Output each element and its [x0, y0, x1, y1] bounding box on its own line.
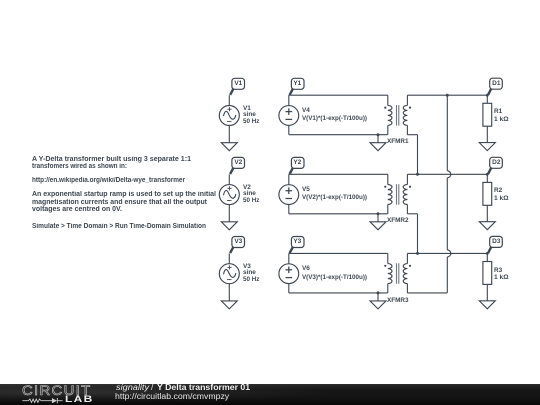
wire secondary top rail row 2 — [407, 173, 487, 175]
wire Y1 label to source V4 — [288, 95, 290, 106]
junction at D3 — [486, 252, 489, 255]
logo resistor symbol — [22, 399, 52, 402]
junction primary ground tap row 1 — [377, 133, 380, 143]
wire source V4 to bottom rail — [288, 125, 290, 134]
node V1 label flag — [230, 78, 244, 95]
node Y2 label flag — [290, 157, 304, 174]
wire source V3 to ground — [228, 284, 230, 301]
wire Y2 label to source V5 — [288, 174, 290, 185]
wire XFMR2 secondary bottom to next row — [407, 214, 417, 254]
node V2 label text — [232, 160, 245, 167]
node V1 label text — [232, 81, 245, 88]
ground primary row 3 — [370, 301, 386, 309]
resistor R1 value text — [494, 109, 502, 115]
resistor R2 — [483, 174, 492, 221]
node D2 label text — [490, 160, 503, 167]
node Y1 label flag — [290, 78, 304, 95]
wire source V1 to ground — [228, 126, 230, 143]
footer title: schematic name — [157, 384, 250, 392]
wire Y1 top rail — [289, 94, 388, 96]
wire XFMR1 secondary bottom to next row — [407, 135, 417, 175]
wire V2 label to source — [228, 174, 230, 184]
node D3 label text — [490, 239, 503, 246]
wire source V5 to bottom rail — [288, 204, 290, 213]
wire Y3 top rail — [289, 252, 388, 254]
junction at D1 — [486, 94, 489, 97]
transformer XFMR3 — [384, 253, 411, 293]
footer title: signality — [116, 384, 149, 392]
footer url — [115, 393, 229, 401]
ground primary row 1 — [370, 143, 386, 151]
voltage source V1 value text — [243, 106, 251, 112]
wire V1 label to source — [228, 95, 230, 105]
junction delta node row 2 — [416, 173, 419, 176]
ground below V2 — [221, 222, 237, 230]
wire Y3 label to source V6 — [288, 253, 290, 264]
wire secondary top rail row 3 — [407, 252, 487, 254]
node Y3 label flag — [290, 237, 304, 254]
node V2 label flag — [230, 157, 244, 174]
node Y3 label text — [291, 239, 304, 246]
node V3 label flag — [230, 237, 244, 254]
voltage source V2 value text — [243, 185, 251, 191]
junction delta node row 1 — [446, 94, 449, 97]
wire Y2 top rail — [289, 173, 388, 175]
resistor R1 — [483, 95, 492, 142]
ground below V3 — [221, 301, 237, 309]
transformer XFMR2 — [384, 174, 411, 214]
resistor R3 value text — [494, 268, 502, 274]
transformer XFMR1 name text — [387, 139, 409, 145]
junction primary ground tap row 3 — [377, 291, 380, 301]
wire source V2 to ground — [228, 205, 230, 222]
voltage source V4 behavioral — [279, 106, 299, 126]
node Y2 label text — [291, 160, 304, 167]
ground below R3 — [479, 301, 495, 309]
transformer XFMR3 name text — [387, 298, 409, 304]
voltage source V5 value text — [302, 187, 310, 193]
ground primary row 2 — [370, 222, 386, 230]
wire V3 label to source — [228, 253, 230, 263]
node D1 label text — [490, 81, 503, 88]
resistor R2 value text — [494, 188, 502, 194]
node D1 label flag — [488, 78, 502, 95]
junction at D2 — [486, 173, 489, 176]
annotation note text block — [32, 157, 191, 164]
voltage source V3 sine 50 Hz — [219, 264, 239, 284]
node D3 label flag — [488, 236, 502, 253]
ground below R2 — [479, 222, 495, 230]
footer bar — [0, 384, 540, 405]
voltage source V6 value text — [302, 266, 310, 272]
voltage source V3 value text — [243, 264, 251, 270]
wire bottom rail row 3 — [289, 292, 388, 294]
junction primary ground tap row 2 — [377, 212, 380, 222]
transformer XFMR1 — [384, 95, 411, 135]
junction delta node row 3 — [416, 252, 419, 255]
node V3 label text — [232, 239, 245, 246]
voltage source V6 behavioral — [279, 264, 299, 284]
node Y1 label text — [291, 81, 304, 88]
voltage source V4 value text — [302, 108, 310, 114]
resistor R3 — [483, 253, 492, 300]
logo wordmark CIRCUIT — [22, 384, 91, 398]
wire secondary top rail row 1 — [407, 94, 487, 96]
voltage source V2 sine 50 Hz — [219, 185, 239, 205]
transformer XFMR2 name text — [387, 218, 409, 224]
footer title: separator — [151, 384, 153, 392]
wire XFMR3 secondary bottom to delta return — [407, 292, 447, 294]
node D2 label flag — [488, 157, 502, 174]
wire delta return vertical with crossover hops — [447, 95, 451, 293]
voltage source V5 behavioral — [279, 185, 299, 205]
wire source V6 to bottom rail — [288, 284, 290, 293]
wire bottom rail row 1 — [289, 134, 388, 136]
ground below R1 — [479, 143, 495, 151]
logo wordmark LAB — [65, 395, 94, 404]
logo diode symbol — [52, 398, 63, 403]
wire bottom rail row 2 — [289, 213, 388, 215]
voltage source V1 sine 50 Hz — [219, 106, 239, 126]
ground below V1 — [221, 143, 237, 151]
